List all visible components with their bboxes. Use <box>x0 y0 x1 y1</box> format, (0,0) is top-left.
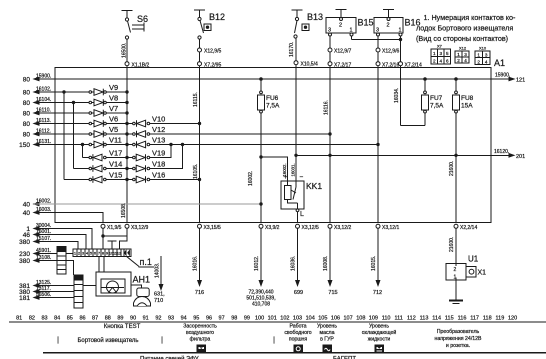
wire to box edge <box>199 52 201 62</box>
connector X1,9/5 <box>101 224 127 249</box>
sensor B15 <box>326 10 374 37</box>
svg-text:16015.: 16015. <box>371 256 377 271</box>
diode V5 <box>89 125 127 137</box>
svg-text:2: 2 <box>339 23 342 29</box>
connector X3,12/1 and wire to 712 <box>371 224 399 296</box>
svg-text:X3,12/1: X3,12/1 <box>382 225 399 231</box>
svg-text:2: 2 <box>387 23 390 29</box>
svg-text:16008.: 16008. <box>323 256 329 271</box>
svg-text:16001.: 16001. <box>36 229 51 235</box>
wire B16 pin3 <box>377 36 379 48</box>
wire B12 line 16115 inside box <box>193 66 200 223</box>
svg-text:жидкости: жидкости <box>368 337 391 343</box>
svg-text:B15: B15 <box>358 18 374 28</box>
node 1 / wire 30004 <box>26 223 92 249</box>
svg-text:X12,9/5: X12,9/5 <box>204 49 221 55</box>
svg-text:X3,9/2: X3,9/2 <box>265 225 280 231</box>
svg-text:13108.: 13108. <box>36 255 51 261</box>
svg-text:40: 40 <box>23 210 31 217</box>
svg-text:111: 111 <box>395 316 403 322</box>
wire B15 pin3 line down <box>329 66 331 223</box>
diode V14 <box>89 160 127 172</box>
connector block XS2 <box>74 275 83 308</box>
svg-text:4: 4 <box>485 60 488 65</box>
icon oil level <box>323 345 332 353</box>
svg-text:98: 98 <box>231 316 237 322</box>
section label Уровень охлаждающей жидкости <box>362 324 397 343</box>
svg-text:16116.: 16116. <box>324 100 330 115</box>
svg-text:7: 7 <box>98 252 100 256</box>
svg-text:3: 3 <box>82 252 84 256</box>
svg-text:90: 90 <box>130 316 136 322</box>
svg-text:16500.: 16500. <box>122 43 128 58</box>
wire feed V11-row to V17-row <box>81 143 89 157</box>
diode V6 <box>89 115 127 127</box>
svg-text:свободного: свободного <box>284 330 311 336</box>
wire 16170 B13 to box <box>289 38 296 61</box>
svg-text:15900.: 15900. <box>495 73 510 79</box>
wire strip to AH1 a <box>98 257 100 273</box>
ground <box>449 301 463 304</box>
svg-text:лодок Бортового извещателя: лодок Бортового извещателя <box>416 24 513 33</box>
svg-text:(Вид со стороны контактов): (Вид со стороны контактов) <box>416 34 508 43</box>
connector X7,2/14 <box>399 62 422 69</box>
connector X3,12/5 and wire to 699 <box>291 224 319 296</box>
svg-text:107: 107 <box>344 316 353 322</box>
A1 box <box>55 68 491 223</box>
svg-text:2: 2 <box>78 252 80 256</box>
converter U1 <box>446 255 479 281</box>
connector X12,9/6 <box>376 48 399 55</box>
svg-text:716: 716 <box>195 290 204 296</box>
svg-text:410,708: 410,708 <box>252 302 270 308</box>
svg-text:16170.: 16170. <box>289 42 295 57</box>
node 80 / wire 16104 <box>23 97 89 107</box>
svg-text:FU7: FU7 <box>430 95 443 102</box>
horn speaker <box>134 288 151 306</box>
svg-text:150: 150 <box>19 142 30 149</box>
svg-text:масла: масла <box>320 330 335 336</box>
svg-text:V18: V18 <box>152 160 165 169</box>
wire B16 pin1 down <box>400 36 402 62</box>
svg-text:X1,1B/2: X1,1B/2 <box>132 63 150 69</box>
svg-text:85: 85 <box>67 316 73 322</box>
svg-text:16003.: 16003. <box>36 207 51 213</box>
node 80 / wire 16112 <box>23 129 89 139</box>
svg-text:87: 87 <box>92 316 98 322</box>
svg-text:6: 6 <box>446 59 449 64</box>
note text <box>416 13 516 43</box>
pin diagram X7 6-pin <box>431 44 451 65</box>
svg-text:21600.: 21600. <box>449 161 455 176</box>
svg-text:15A: 15A <box>461 103 473 110</box>
node 230 / wire 45901 <box>19 248 57 258</box>
svg-text:Х10: Х10 <box>479 46 487 51</box>
fuse FU8 15A <box>449 78 474 223</box>
svg-text:U1: U1 <box>468 255 479 264</box>
svg-text:16110.: 16110. <box>36 108 51 114</box>
svg-text:715: 715 <box>328 290 337 296</box>
svg-text:|: | <box>57 337 59 344</box>
section label Уровень масла в ГУР <box>317 324 337 343</box>
svg-text:AH1: AH1 <box>133 275 151 285</box>
svg-text:A1: A1 <box>494 58 505 68</box>
svg-text:4: 4 <box>86 252 88 256</box>
svg-text:X3,12/2: X3,12/2 <box>334 225 351 231</box>
svg-text:1: 1 <box>433 51 436 56</box>
svg-text:V19: V19 <box>152 149 165 158</box>
diode V13 <box>127 136 165 148</box>
svg-text:16034.: 16034. <box>394 88 400 103</box>
svg-text:B13: B13 <box>307 12 323 22</box>
svg-text:X1: X1 <box>478 270 487 277</box>
connector X2,2/14 and wire 21600 to U1 <box>449 224 477 263</box>
svg-text:95: 95 <box>193 316 199 322</box>
svg-text:B12: B12 <box>209 12 225 22</box>
svg-text:699: 699 <box>294 290 303 296</box>
wire 16003 row from terminal 40 <box>23 207 103 223</box>
connector X10,5/4 <box>294 61 318 68</box>
svg-text:88: 88 <box>105 316 111 322</box>
svg-text:2: 2 <box>454 267 457 273</box>
svg-text:X3,12/5: X3,12/5 <box>302 225 319 231</box>
svg-text:97: 97 <box>219 316 225 322</box>
svg-text:86: 86 <box>79 316 85 322</box>
svg-text:380: 380 <box>19 239 30 246</box>
svg-text:V5: V5 <box>109 125 118 134</box>
wire 15900 exit to 121 <box>491 73 525 84</box>
coordinate scale 81-120 <box>16 316 517 322</box>
svg-text:6: 6 <box>94 252 96 256</box>
wire strip to AH1 b <box>103 257 105 273</box>
switch S6 <box>122 11 149 40</box>
icon free piston <box>294 345 303 353</box>
svg-text:3: 3 <box>440 51 443 56</box>
svg-text:16036.: 16036. <box>291 256 297 271</box>
node 80 / wire 16102 <box>23 87 89 97</box>
svg-text:напряжения 24/12В: напряжения 24/12В <box>434 336 482 342</box>
connector X7,2/95 <box>198 62 222 69</box>
svg-text:X2,2/14: X2,2/14 <box>460 225 477 231</box>
svg-text:7,5A: 7,5A <box>430 103 444 110</box>
svg-text:16104.: 16104. <box>36 97 51 103</box>
wire V12 to B15 pin3 line <box>150 133 331 135</box>
node 80 / wire 16110 <box>23 108 89 118</box>
wire FU6 branch to KK1 plus <box>260 156 288 181</box>
svg-text:Кнопка TEST: Кнопка TEST <box>104 324 141 330</box>
svg-text:102: 102 <box>280 316 289 322</box>
svg-text:119: 119 <box>496 316 505 322</box>
wire block XS1 to block XS2 <box>66 261 74 276</box>
svg-text:V8: V8 <box>109 94 118 103</box>
svg-text:2: 2 <box>457 58 460 63</box>
wire feed V9-row to V15-row <box>63 91 89 180</box>
svg-text:16508.: 16508. <box>121 203 127 218</box>
svg-text:93: 93 <box>168 316 174 322</box>
svg-text:46: 46 <box>23 232 31 239</box>
svg-text:105: 105 <box>318 316 327 322</box>
svg-text:16016.: 16016. <box>193 256 199 271</box>
svg-text:115: 115 <box>445 316 454 322</box>
wire AH1 to horn <box>131 285 142 288</box>
svg-text:V13: V13 <box>152 136 165 145</box>
svg-text:Уровень: Уровень <box>317 324 337 330</box>
svg-text:в ГУР: в ГУР <box>320 337 334 343</box>
strip arrow box <box>124 249 131 257</box>
svg-text:106: 106 <box>331 316 340 322</box>
note line n.1 <box>126 256 154 267</box>
wire 16500 S6 to box <box>122 39 128 62</box>
node 80 / wire 15900 bus <box>23 74 491 84</box>
node 380 / wire 13108 <box>19 255 57 265</box>
diode V15 <box>89 171 127 183</box>
svg-text:V10: V10 <box>152 115 165 124</box>
svg-text:40: 40 <box>23 202 31 209</box>
svg-text:V15: V15 <box>109 171 122 180</box>
wire V10 to B12 line <box>150 122 201 124</box>
connector X3,12/2 and wire to 715 <box>323 224 351 296</box>
svg-text:V7: V7 <box>109 104 118 113</box>
svg-text:X7,2/17: X7,2/17 <box>334 63 351 69</box>
wire to edge <box>329 52 331 62</box>
svg-text:X7,2/16: X7,2/16 <box>382 63 399 69</box>
diode V16 <box>127 171 165 183</box>
svg-text:X12,9/7: X12,9/7 <box>334 49 351 55</box>
svg-text:V6: V6 <box>109 115 118 124</box>
section label Преобразователь напряжения <box>434 329 482 349</box>
fuse FU7 7,5A <box>422 78 445 126</box>
svg-text:96: 96 <box>206 316 212 322</box>
svg-text:V11: V11 <box>109 136 122 145</box>
svg-text:1: 1 <box>457 52 460 57</box>
connector X12,9/5 <box>198 48 222 55</box>
node 381 / wire 13125 <box>19 280 74 290</box>
wire B15 pin3 <box>329 36 331 48</box>
svg-text:Преобразователь: Преобразователь <box>437 329 480 335</box>
axis rule <box>9 321 546 323</box>
buzzer AH1 <box>96 272 150 296</box>
diode V19 <box>127 149 165 161</box>
connector X3,12/9 <box>120 224 149 249</box>
section label Работа свободного поршня <box>284 324 311 343</box>
svg-text:712: 712 <box>373 290 382 296</box>
node 80 / wire 16113 <box>23 118 89 128</box>
svg-text:5: 5 <box>90 252 92 256</box>
svg-text:FU6: FU6 <box>266 95 279 102</box>
svg-text:16112.: 16112. <box>36 129 51 135</box>
diode V17 <box>89 149 127 161</box>
node 181 / wire 56506 <box>19 292 74 302</box>
node 150 / wire 16131 <box>19 139 89 149</box>
svg-text:Х7: Х7 <box>437 44 443 49</box>
svg-text:80: 80 <box>23 100 31 107</box>
svg-text:KK1: KK1 <box>306 181 322 191</box>
svg-text:4: 4 <box>440 59 443 64</box>
svg-text:81: 81 <box>16 316 22 322</box>
pin diagram X10 4-pin <box>475 46 490 65</box>
svg-text:201: 201 <box>516 154 525 160</box>
section baseline <box>43 352 546 354</box>
svg-text:16012.: 16012. <box>254 256 260 271</box>
svg-text:80: 80 <box>23 77 31 84</box>
connector strip X1 <box>73 249 124 257</box>
wire to 631 710 <box>154 256 165 304</box>
svg-text:16131.: 16131. <box>36 139 51 145</box>
svg-text:|: | <box>273 337 275 344</box>
svg-text:Работа: Работа <box>289 324 306 330</box>
svg-text:110: 110 <box>382 316 391 322</box>
svg-text:X7,2/95: X7,2/95 <box>204 63 221 69</box>
svg-text:117: 117 <box>470 316 479 322</box>
svg-text:116: 116 <box>458 316 467 322</box>
svg-text:2: 2 <box>433 59 436 64</box>
svg-text:83: 83 <box>41 316 47 322</box>
wire block XS1 to strip <box>66 253 73 255</box>
svg-text:3: 3 <box>464 52 467 57</box>
svg-text:45901.: 45901. <box>36 248 51 254</box>
svg-text:8: 8 <box>102 252 104 256</box>
svg-text:100: 100 <box>255 316 264 322</box>
svg-text:V14: V14 <box>109 160 122 169</box>
svg-text:|: | <box>161 337 163 344</box>
svg-text:Бортовой извещатель: Бортовой извещатель <box>77 337 138 344</box>
svg-text:14003.: 14003. <box>155 263 161 278</box>
svg-text:FU8: FU8 <box>461 95 474 102</box>
svg-text:S6: S6 <box>137 14 148 24</box>
wire 16002 row from terminal 40 <box>23 199 262 209</box>
svg-text:91: 91 <box>143 316 149 322</box>
node 46 / wire 16001 <box>23 229 86 249</box>
svg-text:V16: V16 <box>152 171 165 180</box>
svg-text:9: 9 <box>106 252 108 256</box>
svg-text:80: 80 <box>23 132 31 139</box>
diode V9 <box>89 83 127 95</box>
wire B16 pin1 to FU7 bottom / 16034 <box>394 66 425 126</box>
relay KK1 <box>281 174 322 223</box>
svg-text:710: 710 <box>154 298 163 304</box>
svg-text:80: 80 <box>23 111 31 118</box>
svg-text:56506.: 56506. <box>36 292 51 298</box>
connector X1,1B/2 <box>125 62 150 69</box>
svg-text:103: 103 <box>293 316 302 322</box>
connector X7,2/16 <box>376 62 399 69</box>
node 380 / wire 13117 <box>19 286 74 296</box>
svg-text:поршня: поршня <box>289 337 308 343</box>
diode V10 <box>127 115 165 127</box>
svg-text:1. Нумерация контактов ко-: 1. Нумерация контактов ко- <box>424 13 517 22</box>
icon filter <box>197 345 206 353</box>
svg-text:89: 89 <box>117 316 123 322</box>
svg-text:104: 104 <box>306 316 315 322</box>
svg-text:114: 114 <box>432 316 441 322</box>
svg-text:15900.: 15900. <box>36 74 51 80</box>
svg-text:Питание свечей ЭФУ: Питание свечей ЭФУ <box>140 356 199 359</box>
svg-text:84: 84 <box>54 316 60 322</box>
svg-text:5: 5 <box>446 51 449 56</box>
svg-text:80: 80 <box>23 90 31 97</box>
wire V18 riser to V13 row <box>150 143 184 168</box>
svg-text:121: 121 <box>516 78 525 84</box>
svg-text:п.1: п.1 <box>140 257 152 267</box>
diode V12 <box>127 125 165 137</box>
diode V7 <box>89 104 127 116</box>
switch B12 <box>194 10 225 39</box>
diode V8 <box>89 94 127 106</box>
wire B16 pin3 line down <box>377 66 379 223</box>
svg-text:V17: V17 <box>109 149 122 158</box>
antenna tap T <box>108 241 117 249</box>
svg-text:1: 1 <box>74 252 76 256</box>
svg-text:80: 80 <box>23 121 31 128</box>
wire V16 to B12 line <box>150 178 201 180</box>
switch B13 <box>292 10 324 38</box>
svg-text:113: 113 <box>420 316 429 322</box>
svg-text:X10,5/4: X10,5/4 <box>301 62 318 68</box>
svg-text:Уровень: Уровень <box>369 324 389 330</box>
wire block XS2 to AH1 <box>83 285 96 287</box>
svg-text:16031.: 16031. <box>291 163 296 176</box>
connector block XS1 <box>57 247 66 275</box>
svg-text:Засоренность: Засоренность <box>183 324 217 330</box>
connector X3,9/2 and wire to 72,390,440 <box>246 224 279 307</box>
svg-text:X7,2/14: X7,2/14 <box>405 63 422 69</box>
svg-text:118: 118 <box>483 316 492 322</box>
svg-text:2: 2 <box>477 60 480 65</box>
svg-text:16102.: 16102. <box>36 87 51 93</box>
svg-text:охлаждающей: охлаждающей <box>362 329 397 336</box>
junction dots S6 line <box>126 91 128 181</box>
wire S6 line 16508 down through matrix <box>121 66 127 223</box>
svg-text:X1,9/5: X1,9/5 <box>107 225 122 231</box>
svg-text:V12: V12 <box>152 125 165 134</box>
svg-text:94: 94 <box>181 316 187 322</box>
svg-text:120: 120 <box>508 316 517 322</box>
svg-text:109: 109 <box>369 316 378 322</box>
svg-text:и розетка.: и розетка. <box>446 343 470 349</box>
connector X3,15/5 and wire to 716 <box>193 224 221 296</box>
svg-text:16113.: 16113. <box>36 118 51 124</box>
svg-text:16105.: 16105. <box>193 164 199 179</box>
svg-text:16115.: 16115. <box>193 92 199 107</box>
svg-text:1: 1 <box>477 53 480 58</box>
svg-text:101: 101 <box>268 316 277 322</box>
svg-text:82: 82 <box>29 316 35 322</box>
svg-text:112: 112 <box>407 316 416 322</box>
wire B15 pin1 to B16 pin1 <box>352 36 402 41</box>
diode V11 <box>89 136 127 148</box>
fuse FU6 7,5A <box>258 78 281 223</box>
connector X1 socket <box>466 267 486 278</box>
connector X7,2/17 <box>328 62 351 69</box>
svg-text:X12,9/6: X12,9/6 <box>382 49 399 55</box>
wire V13 to B16 pin3 line <box>150 143 379 145</box>
svg-text:99: 99 <box>244 316 250 322</box>
connector X12,9/7 <box>328 48 351 55</box>
svg-text:15107.: 15107. <box>36 236 51 242</box>
svg-text:380: 380 <box>19 258 30 265</box>
svg-text:92: 92 <box>155 316 161 322</box>
wire B12 to connector <box>199 39 201 48</box>
diode V18 <box>127 160 165 172</box>
svg-text:12: 12 <box>117 252 121 256</box>
svg-text:фильтра: фильтра <box>190 337 211 343</box>
svg-text:16120.: 16120. <box>494 149 509 155</box>
svg-text:108: 108 <box>356 316 365 322</box>
wire to edge <box>377 52 379 62</box>
svg-text:16002.: 16002. <box>282 163 287 176</box>
svg-text:7,5A: 7,5A <box>266 103 280 110</box>
svg-text:L: L <box>300 211 304 218</box>
